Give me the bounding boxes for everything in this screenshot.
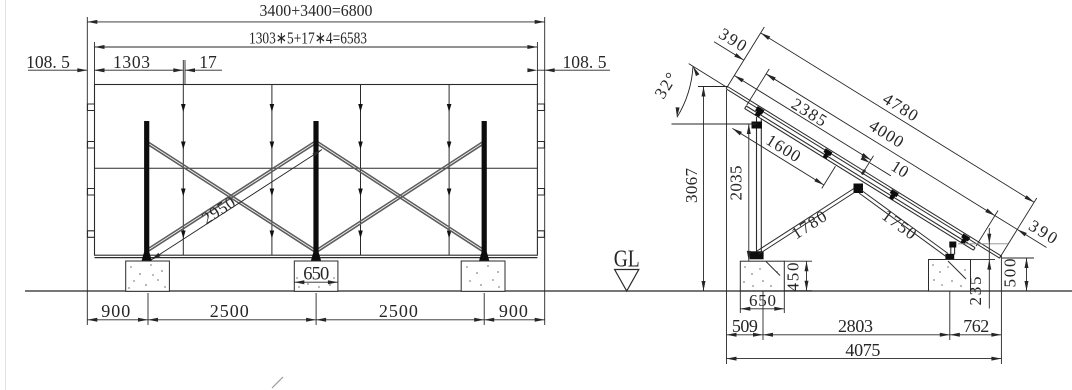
svg-text:2500: 2500 (379, 301, 418, 321)
svg-text:108. 5: 108. 5 (26, 52, 70, 72)
side footing 1 diagonal (766, 262, 780, 276)
dimension 450 (784, 261, 813, 291)
svg-text:2035: 2035 (727, 166, 746, 201)
X brace bay 1 (148, 142, 315, 252)
svg-text:2803: 2803 (838, 316, 873, 336)
support beam band (745, 106, 975, 250)
svg-text:4000: 4000 (866, 116, 907, 152)
dimension 17 (185, 52, 222, 72)
X brace bay 2 (318, 142, 484, 252)
clamp B purlin (821, 148, 832, 160)
32 degree reference line (672, 123, 757, 125)
footing speckles (128, 264, 965, 288)
rear post bracket (752, 122, 763, 129)
dimension 2035 (727, 124, 751, 261)
svg-text:650: 650 (749, 291, 776, 310)
dimension 390 bottom (slope) (985, 192, 1061, 251)
brace 1750 (859, 190, 948, 257)
svg-text:235: 235 (966, 277, 985, 306)
panel mid row line (95, 167, 538, 169)
extension s=26.2 (747, 69, 770, 106)
module divider 1 (182, 85, 184, 256)
rear post side view (757, 117, 762, 252)
watermark fragment (272, 377, 283, 388)
front post side view (951, 243, 955, 255)
svg-text:108. 5: 108. 5 (563, 52, 607, 72)
extension line outer-left (86, 17, 88, 325)
extension s=295.3 (976, 210, 998, 246)
brace node gusset (854, 184, 864, 194)
dimension 2385 (slope) (733, 61, 880, 162)
dimension 1600 (slope, below) (730, 110, 835, 189)
dimension 108.5 right (527, 52, 610, 72)
dimension 10 joint (861, 141, 913, 184)
extension line outer-right (544, 17, 546, 325)
svg-text:509: 509 (732, 316, 758, 336)
dimension 4075 (727, 340, 1002, 361)
dimension 235 (958, 228, 1008, 309)
rear post base plate (750, 251, 764, 259)
dimension 390 top (slope) (713, 24, 786, 81)
clamp E front-post (959, 234, 970, 246)
svg-text:3067: 3067 (682, 168, 701, 204)
32 degree arc (677, 66, 693, 117)
clamp A rear-post (753, 106, 765, 118)
svg-text:4075: 4075 (845, 340, 880, 360)
svg-text:3400+3400=6800: 3400+3400=6800 (260, 1, 373, 20)
svg-text:2950: 2950 (198, 193, 239, 228)
footing 1 (126, 261, 170, 291)
panel back extension for angle (689, 64, 727, 88)
dimension 500 (1001, 258, 1035, 291)
ground line (25, 290, 1072, 292)
side footing 1 (740, 261, 784, 291)
svg-text:10: 10 (888, 157, 912, 182)
edge brackets left (88, 104, 95, 237)
dimension 3400+3400=6800 (87, 1, 544, 24)
dimension 1303*5+17*4=6583 (95, 29, 538, 50)
module divider 4 (448, 85, 450, 256)
svg-text:1303∗5+17∗4=6583: 1303∗5+17∗4=6583 (249, 29, 367, 48)
post 3 (479, 121, 489, 261)
svg-text:2500: 2500 (210, 301, 249, 321)
svg-text:GL: GL (614, 247, 640, 273)
front post base plate (945, 254, 954, 261)
svg-text:17: 17 (199, 52, 217, 72)
module joint gap (861, 169, 865, 174)
svg-text:1750: 1750 (878, 206, 920, 244)
panel array outline (95, 85, 538, 256)
svg-text:1600: 1600 (763, 130, 804, 166)
extension lines 17 gap (182, 60, 184, 85)
extension line panel-left (94, 42, 96, 85)
dimension 4780 (slope) (760, 16, 1045, 204)
dimension 108.5 left (26, 52, 104, 72)
svg-text:2385: 2385 (788, 94, 830, 130)
dimension 1303 (95, 52, 184, 72)
svg-text:900: 900 (101, 301, 130, 321)
dimension 650 right view (740, 291, 784, 313)
front post top bracket (949, 242, 956, 248)
side footing 2 diagonal (948, 261, 966, 279)
svg-text:500: 500 (1001, 259, 1020, 288)
footing 3 (461, 261, 505, 291)
GL symbol (614, 247, 640, 292)
svg-text:450: 450 (784, 263, 803, 292)
module divider 2 (271, 85, 273, 256)
dimension 3067 (682, 87, 728, 292)
page border left (5, 0, 7, 390)
bottom dimension row 509/2803/762 (727, 90, 1002, 364)
extension s=321.6 (999, 198, 1036, 258)
clamp D purlin (887, 189, 898, 201)
side footing 2 (929, 260, 971, 292)
post 1 (142, 121, 152, 261)
extension s=0 (728, 27, 765, 87)
brace 1780 (757, 187, 859, 255)
svg-text:650: 650 (303, 265, 329, 285)
dimension 4000 (slope) (765, 55, 1006, 217)
svg-text:900: 900 (499, 301, 528, 321)
bottom dimension row 900/2500/2500/900 (87, 293, 544, 325)
pv panel band (726, 87, 1001, 259)
inclined assembly group (670, 0, 1072, 307)
svg-text:390: 390 (716, 24, 751, 55)
bottom rail line (95, 257, 538, 259)
svg-text:32°: 32° (651, 69, 681, 102)
edge brackets right (537, 104, 544, 237)
clamp arrows on dividers (181, 104, 451, 239)
extension line panel-right (536, 42, 538, 85)
post 2 (311, 121, 321, 261)
dimension 650 inside footing 2 (294, 265, 338, 285)
svg-text:762: 762 (963, 316, 989, 336)
svg-text:1303: 1303 (113, 52, 150, 72)
extension s=160.6 (862, 156, 874, 175)
dimension 2950 diagonal (150, 148, 323, 262)
svg-text:390: 390 (1025, 216, 1061, 248)
footing 2 (294, 261, 338, 291)
module divider 3 (360, 85, 362, 256)
